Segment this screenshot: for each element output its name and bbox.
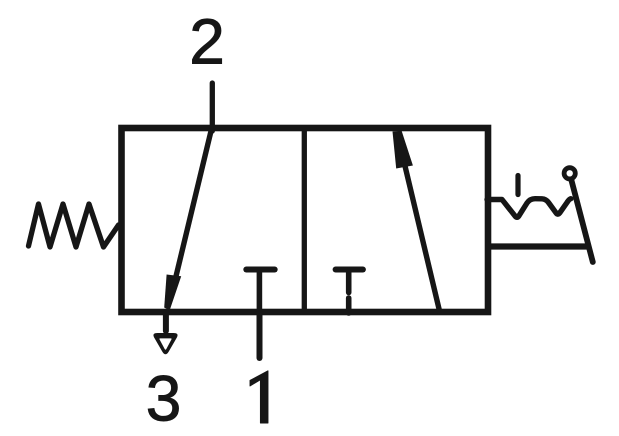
port 1 line [257,312,263,358]
svg-text:2: 2 [189,6,225,78]
blocked port stem upper [346,270,352,293]
blocked port symbol (right position) [336,267,363,273]
return spring actuator [29,204,119,247]
arrowhead toward port 2 (right position) [393,131,413,169]
label port 1 (drawn glyph) [250,371,268,423]
blocked port 1 symbol (left position) [246,267,274,273]
detent pin [515,176,520,195]
lever actuator base rail [488,243,587,249]
blocked port stem lower [346,298,352,313]
position divider line [302,128,307,312]
lever knob [564,168,575,179]
port 3 stub [163,312,169,331]
exhaust triangle at port 3 [153,333,177,354]
valve body outline (two-position envelope) [122,128,489,312]
blocked port 1 stem [257,270,263,313]
flow path 1-2 (right position diagonal) [405,166,440,313]
flow path 2-3 (left position diagonal) [176,129,212,278]
svg-text:3: 3 [146,363,182,435]
port 2 line [210,83,215,131]
lever arm [572,181,593,263]
arrowhead toward port 3 [164,275,181,311]
detent notch profile [487,199,571,218]
